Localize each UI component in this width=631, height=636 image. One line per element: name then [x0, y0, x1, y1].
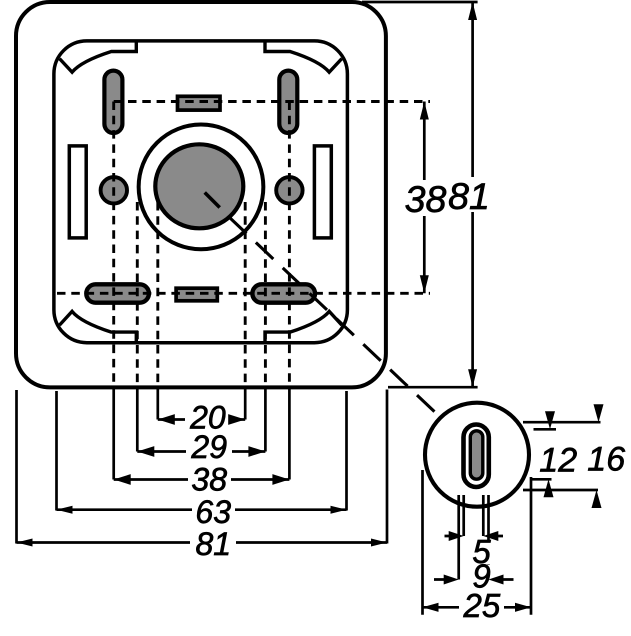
- top-right vertical slot: [279, 71, 297, 133]
- dimension 9: [471, 565, 492, 589]
- projection line hole right (dashed): [244, 202, 247, 389]
- extension lines below detail slot: [457, 495, 460, 580]
- corner claw bottom-right: [265, 311, 342, 341]
- dimension line 81 vertical: [471, 2, 474, 387]
- projection line ring right (dashed): [264, 202, 267, 389]
- right white window: [314, 146, 331, 238]
- svg-text:29: 29: [190, 429, 227, 465]
- svg-text:81: 81: [196, 526, 232, 562]
- extension line ring right (solid below plate): [264, 389, 267, 452]
- dimension line 38 vertical: [423, 102, 426, 294]
- right small screw hole: [276, 177, 302, 203]
- dimension line 81 horizontal: [17, 541, 388, 544]
- extension line detail slot inner top (12): [534, 428, 557, 431]
- screw slot mark in central hole: [205, 193, 220, 208]
- projection line ring left (dashed): [136, 202, 139, 389]
- extension line 20 right (solid below plate): [244, 389, 247, 420]
- corner claw top-right: [265, 42, 342, 72]
- left small screw hole: [101, 177, 127, 203]
- extension line hole right (solid below plate): [288, 389, 291, 480]
- extension line ring left (solid below plate): [136, 389, 139, 452]
- svg-text:12: 12: [539, 442, 577, 480]
- detail callout line (dashed diagonal): [229, 217, 438, 415]
- dimension text 25: [460, 593, 502, 618]
- dimension 5: [445, 535, 504, 538]
- extension line left 81: [15, 390, 18, 544]
- arrows dimension 16: [594, 404, 604, 422]
- detail outer slot oval: [464, 425, 489, 488]
- svg-text:63: 63: [195, 494, 231, 530]
- detail inner slot oval (gray): [470, 431, 483, 479]
- svg-text:38: 38: [405, 178, 447, 220]
- corner claw bottom-left: [60, 311, 137, 341]
- detail view circle d25: [425, 403, 529, 507]
- extension line 20 left (solid below plate): [156, 389, 159, 420]
- extension line right 63: [345, 391, 348, 511]
- top-left vertical slot: [104, 71, 122, 133]
- bottom-right horizontal slot: [252, 284, 315, 302]
- arrows dimension 12: [545, 411, 555, 429]
- dimension 25: [423, 606, 532, 609]
- horizontal centerline top row (dashed): [114, 100, 430, 103]
- vertical centerline right holes (dashed): [288, 102, 291, 390]
- projection line hole left (dashed): [156, 202, 159, 389]
- bottom-left horizontal slot: [86, 284, 149, 302]
- corner claw top-left: [60, 42, 137, 72]
- extension line right 81: [386, 390, 389, 544]
- left white window: [69, 146, 86, 238]
- extension line bottom-right for height 81: [388, 386, 478, 389]
- vertical centerline left holes (dashed): [112, 102, 115, 390]
- extension line hole left (solid below plate): [112, 389, 115, 480]
- extension line top for height 81: [362, 1, 478, 4]
- svg-text:25: 25: [463, 587, 501, 624]
- top center rectangular opening: [178, 96, 221, 110]
- bottom center rectangular opening: [176, 288, 217, 301]
- central device hole (gray): [155, 144, 243, 228]
- inner frame outline 63x63: [54, 41, 348, 343]
- dimension line 38 horizontal: [114, 478, 290, 481]
- central mounting ring: [139, 125, 264, 250]
- dimension line 20 horizontal: [158, 418, 245, 421]
- svg-text:16: 16: [587, 440, 625, 478]
- extension line left 63: [55, 391, 58, 511]
- dimension text 5: [471, 540, 492, 564]
- extension line detail slot inner bottom (12): [532, 478, 552, 481]
- extension line detail slot outer bottom (16): [523, 489, 598, 492]
- horizontal centerline bottom row (dashed): [57, 292, 430, 295]
- extension lines detail circle sides (25): [421, 470, 424, 615]
- dimension line 29 horizontal: [137, 450, 265, 453]
- dimension line 63 horizontal: [57, 508, 347, 511]
- outer cover plate outline 81x81: [16, 2, 386, 387]
- svg-text:38: 38: [191, 462, 227, 498]
- extension line detail slot outer top (16): [523, 421, 601, 424]
- svg-text:81: 81: [448, 175, 490, 217]
